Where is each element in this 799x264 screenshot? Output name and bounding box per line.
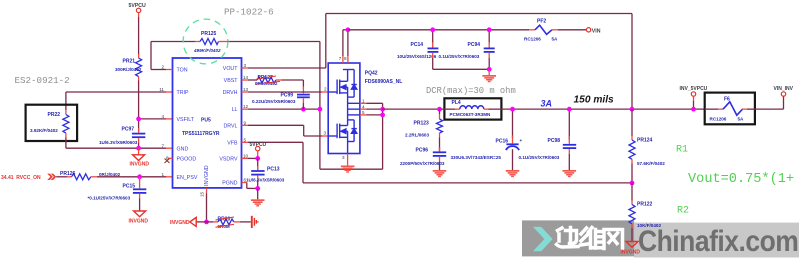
svg-text:7: 7 — [161, 143, 164, 148]
svg-text:R1: R1 — [676, 145, 688, 156]
svg-text:VFB: VFB — [227, 140, 238, 146]
svg-text:FDS6990AS_NL: FDS6990AS_NL — [365, 79, 403, 85]
wire under-box U to right pins — [320, 103, 383, 169]
svg-text:PC99: PC99 — [281, 92, 294, 98]
wire output rail 150mils — [502, 108, 705, 110]
resistor PR22 3.92K — [30, 110, 69, 138]
svg-text:11: 11 — [159, 87, 164, 92]
svg-text:PC98: PC98 — [548, 138, 561, 144]
svg-text:4: 4 — [161, 114, 164, 119]
box around PR22 — [26, 105, 78, 141]
wire Q2 source to ground — [342, 154, 348, 166]
wire VIN rail to PC14 PC94 PF2 — [348, 29, 529, 31]
power symbol 5VPCU top — [129, 3, 147, 17]
svg-text:DCR(max)=30 m ohm: DCR(max)=30 m ohm — [426, 86, 516, 96]
pin 8 PGOOD no-connect stub and X — [165, 158, 173, 163]
power symbol VIN — [586, 28, 600, 35]
power symbol VIN_INV — [774, 86, 794, 96]
wire VSFILT to IC pin 4 — [139, 118, 166, 120]
dashed highlight circle — [183, 19, 228, 64]
capacitor PC14 — [397, 30, 438, 70]
capacitor PC15 — [88, 177, 147, 211]
wire VSDRV pin10 — [242, 157, 258, 159]
svg-text:INVGND: INVGND — [170, 220, 190, 226]
svg-text:0.1U/25V/X7R/0603: 0.1U/25V/X7R/0603 — [519, 155, 560, 160]
ground INVGND left arrow — [170, 217, 207, 226]
svg-text:INVGND: INVGND — [621, 250, 641, 256]
svg-text:PR123: PR123 — [414, 121, 430, 127]
node LL junction at PC99 — [301, 107, 306, 112]
svg-text:10K/F/0402: 10K/F/0402 — [637, 223, 661, 228]
svg-text:300R/J/0402: 300R/J/0402 — [115, 67, 142, 72]
capacitor PC97 — [99, 126, 145, 148]
svg-text:PR21: PR21 — [123, 59, 136, 65]
svg-text:+: + — [520, 138, 523, 143]
svg-text:R2: R2 — [677, 206, 689, 217]
svg-text:PC16: PC16 — [496, 138, 509, 144]
svg-text:PC94: PC94 — [468, 42, 481, 48]
wire VSFILT node down through PC97 top — [138, 119, 140, 132]
svg-text:PC97: PC97 — [122, 126, 135, 132]
inductor PL4 — [443, 98, 502, 119]
resistor PR124 R1 — [629, 109, 665, 183]
svg-text:7: 7 — [339, 56, 342, 61]
ground stepped below PC98 — [563, 170, 577, 177]
svg-text:57.6K/F/0402: 57.6K/F/0402 — [637, 161, 665, 166]
node VSFILT junction — [136, 117, 141, 122]
svg-text:VIN_INV: VIN_INV — [774, 86, 794, 92]
wire DRVL pin9 to low gate — [242, 125, 329, 136]
node feedback junction — [630, 181, 635, 186]
svg-text:EN_PSV: EN_PSV — [177, 175, 198, 181]
wire pin15 down — [206, 188, 208, 194]
resistor PR125 499K — [193, 31, 229, 53]
node PGND junction — [255, 186, 260, 191]
wire PR21 to VSFILT node — [138, 81, 140, 119]
svg-text:14: 14 — [243, 75, 249, 80]
svg-text:4: 4 — [362, 104, 365, 109]
svg-text:2: 2 — [324, 87, 327, 92]
wire F6 to VIN_INV — [755, 96, 784, 109]
node PR123 junction — [437, 107, 442, 112]
svg-text:3.92K/F/0402: 3.92K/F/0402 — [30, 128, 58, 133]
wire LL rail to PL4 — [383, 108, 443, 110]
wire TRIP line — [66, 92, 173, 110]
svg-text:10U/25V/X6S/1206: 10U/25V/X6S/1206 — [397, 54, 437, 59]
svg-text:5A: 5A — [552, 37, 559, 42]
svg-text:1U/6.3V/X5R/0603: 1U/6.3V/X5R/0603 — [99, 140, 138, 145]
pin numbers left — [159, 65, 169, 177]
svg-text:8: 8 — [344, 56, 347, 61]
wire LL pin 12 line — [242, 108, 320, 110]
svg-text:499K/F/0402: 499K/F/0402 — [193, 48, 221, 53]
node LL pins junctions — [380, 107, 385, 112]
transistor Q1 high-side — [328, 70, 357, 98]
svg-text:INV_5VPCU: INV_5VPCU — [680, 86, 708, 92]
node LL junction at riser — [318, 107, 323, 112]
IC PU5 TPS51117RGYR — [173, 58, 242, 188]
ground stepped below PC94 — [482, 75, 496, 82]
svg-text:34.41 RVCC_ON: 34.41 RVCC_ON — [1, 175, 41, 181]
resistor RR20 DNI — [207, 216, 251, 229]
node INV_5VPCU junction — [691, 107, 696, 112]
resistor PR21 300R — [115, 54, 142, 81]
svg-text:PC15: PC15 — [123, 183, 136, 189]
wire VBST pin14 with PR127 — [242, 79, 258, 81]
svg-text:TON: TON — [177, 68, 188, 74]
wire PGND to ground — [257, 188, 259, 199]
power symbol 5VPCU at VSDRV — [250, 142, 267, 158]
node EN junction PC15 — [137, 174, 142, 179]
svg-text:PCMC063T-3R3MN: PCMC063T-3R3MN — [450, 112, 492, 117]
node PC94 top junction — [487, 27, 492, 32]
svg-text:1U/6.3V/X5R/0603: 1U/6.3V/X5R/0603 — [246, 178, 285, 183]
svg-text:LL: LL — [232, 107, 238, 113]
wire TON pin2 loop to PR125 — [151, 42, 195, 70]
resistor PR123 snubber — [405, 109, 443, 137]
svg-text:INVGND: INVGND — [130, 161, 150, 167]
offpage connector chevron — [47, 174, 56, 180]
ground stepped below PC16 — [506, 170, 520, 177]
node VSDRV junction — [255, 156, 260, 161]
svg-text:PC14: PC14 — [411, 42, 424, 48]
svg-text:VOUT: VOUT — [223, 66, 238, 72]
svg-text:0.22U/25V/X5R/0603: 0.22U/25V/X5R/0603 — [252, 99, 296, 104]
fuse PF2 — [524, 18, 586, 41]
node drain rail junction — [346, 27, 351, 32]
svg-text:150 mils: 150 mils — [574, 94, 615, 105]
svg-text:PR126: PR126 — [60, 171, 76, 177]
svg-text:PU5: PU5 — [201, 118, 211, 124]
svg-text:3A: 3A — [541, 99, 553, 109]
ground stepped below PC96 — [433, 170, 447, 177]
resistor PR126 0R — [56, 171, 120, 180]
ground INVGND below PC97 — [130, 148, 150, 167]
wire PR127 to PC99 — [282, 80, 304, 93]
svg-text:VIN: VIN — [592, 28, 601, 34]
svg-text:2200P/50V/X7R/0603: 2200P/50V/X7R/0603 — [400, 161, 445, 166]
capacitor PC98 — [519, 109, 577, 170]
svg-text:PGOOD: PGOOD — [177, 156, 197, 162]
watermark CJK logo strokes — [557, 228, 623, 249]
capacitor PC94 — [439, 30, 495, 70]
wire PR125 to LL riser — [229, 41, 320, 43]
mosfet box PQ42 — [328, 63, 402, 154]
svg-text:VSDRV: VSDRV — [219, 157, 238, 163]
capacitor PC96 snubber — [400, 138, 446, 171]
svg-text:INVGND: INVGND — [204, 165, 210, 186]
wire PR22 bottom to GND line — [65, 138, 67, 149]
watermark band — [522, 220, 799, 257]
wire PGND pin6 jog — [242, 183, 258, 189]
svg-text:1: 1 — [362, 98, 365, 103]
svg-text:PR122: PR122 — [637, 201, 653, 207]
svg-text:DRVH: DRVH — [223, 90, 238, 96]
svg-text:3: 3 — [342, 155, 345, 160]
node pin15 junction — [204, 220, 209, 225]
svg-text:DRVL: DRVL — [223, 123, 237, 129]
wire LL riser vertical — [319, 42, 321, 170]
wire VOUT pin3 to top rail — [242, 14, 633, 110]
svg-text:Chinafix.com: Chinafix.com — [638, 225, 798, 258]
node divider top junction — [630, 107, 635, 112]
wire 5VPCU vertical to PR21 — [138, 17, 140, 54]
svg-text:Vout=0.75*(1+: Vout=0.75*(1+ — [688, 172, 794, 187]
svg-text:ES2-0921-2: ES2-0921-2 — [15, 75, 70, 86]
svg-text:VSFILT: VSFILT — [177, 117, 195, 123]
svg-text:5: 5 — [244, 137, 247, 142]
wire VFB pin5 feedback run — [242, 142, 633, 183]
svg-text:PR22: PR22 — [48, 112, 61, 118]
resistor PR127 0R DNI — [255, 75, 282, 86]
svg-text:PQ42: PQ42 — [365, 71, 378, 77]
svg-text:5: 5 — [362, 110, 365, 115]
capacitor PC16 polarized — [451, 109, 523, 170]
capacitor PC99 bootstrap — [252, 92, 310, 109]
ground stepped below PC13 — [251, 199, 265, 206]
svg-text:PL4: PL4 — [452, 100, 461, 106]
svg-text:PGND: PGND — [222, 181, 237, 187]
svg-text:RC1206: RC1206 — [710, 116, 727, 121]
wire caps bottom bus — [433, 68, 490, 70]
wire PR126 to EN_PSV pin 1 — [97, 176, 173, 178]
svg-text:PC96: PC96 — [416, 147, 429, 153]
ground INVGND below PC15 — [129, 211, 149, 224]
node GND/PC97 junction — [136, 146, 141, 151]
svg-text:TRIP: TRIP — [177, 90, 190, 96]
ground INVGND below PR122 — [621, 242, 641, 256]
fuse F6 in box — [705, 93, 755, 125]
node PC98 junction — [567, 107, 572, 112]
svg-text:*0.1U/25V/X7R/0603: *0.1U/25V/X7R/0603 — [88, 196, 131, 201]
svg-text:5A: 5A — [738, 116, 745, 121]
wire GND line to IC pin 7 — [66, 147, 173, 149]
svg-text:VBST: VBST — [224, 78, 239, 84]
svg-text:PR124: PR124 — [637, 137, 653, 143]
svg-text:PF2: PF2 — [537, 18, 546, 24]
svg-text:1: 1 — [161, 172, 164, 177]
svg-text:INVGND: INVGND — [129, 218, 149, 224]
capacitor PC13 — [246, 158, 285, 188]
svg-text:TPS51117RGYR: TPS51117RGYR — [182, 131, 220, 137]
svg-text:330U6.3V/7343/ESR=25: 330U6.3V/7343/ESR=25 — [451, 155, 502, 160]
pin numbers right — [200, 63, 249, 197]
svg-text:PC13: PC13 — [267, 167, 280, 173]
port ground symbol right of RR20 — [252, 216, 258, 228]
node PC14 top junction — [430, 27, 435, 32]
power symbol INV_5VPCU — [680, 86, 708, 109]
svg-text:PR125: PR125 — [201, 31, 217, 37]
wire top rail from drain pins — [339, 30, 348, 63]
wire internal LL bus and right pins — [348, 97, 383, 120]
svg-text:2.2RL/0603: 2.2RL/0603 — [405, 133, 429, 138]
wire DRVH pin13 to top gate — [242, 87, 329, 92]
svg-text:RC1206: RC1206 — [524, 37, 541, 42]
ground stepped below PQ42 — [341, 166, 355, 173]
resistor PR122 R2 — [629, 183, 661, 241]
node PC16 junction — [510, 107, 515, 112]
svg-text:PP-1022-6: PP-1022-6 — [224, 7, 274, 18]
svg-text:12: 12 — [243, 104, 249, 109]
svg-text:0.1U/25V/X7R/0603: 0.1U/25V/X7R/0603 — [439, 54, 480, 59]
svg-text:3: 3 — [324, 131, 327, 136]
svg-text:GND: GND — [177, 146, 189, 152]
transistor Q2 low-side — [328, 120, 357, 154]
svg-text:15: 15 — [200, 191, 205, 197]
